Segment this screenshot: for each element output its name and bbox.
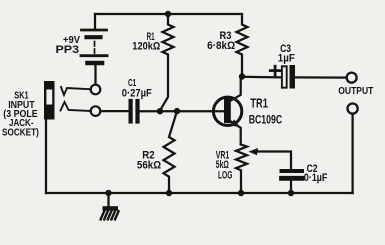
- wire bottom rail: [46, 192, 353, 194]
- node R1 base junction: [157, 108, 163, 114]
- ground symbol stem: [107, 193, 109, 207]
- svg-text:56kΩ: 56kΩ: [137, 159, 161, 171]
- switch contact lower arm: [61, 102, 91, 111]
- wire battery negative lead: [94, 65, 96, 84]
- capacitor C1 plate left: [129, 101, 133, 122]
- wire C2 to rail: [290, 181, 292, 193]
- node VR1 ground junction: [238, 190, 244, 196]
- resistor R3: [237, 14, 248, 77]
- switch contact lower circle: [91, 106, 101, 116]
- potentiometer VR1 wiper arrow head: [249, 148, 259, 155]
- transistor TR1 emitter arrow: [230, 119, 240, 127]
- wire C1 to base: [140, 110, 224, 112]
- svg-text:TR1: TR1: [250, 95, 268, 110]
- wire battery positive lead: [94, 14, 96, 29]
- svg-text:OUTPUT: OUTPUT: [338, 85, 373, 97]
- wire input circle to C1: [101, 110, 129, 112]
- switch contact upper arm: [61, 87, 91, 95]
- battery BY1 long plate top: [82, 29, 107, 32]
- capacitor C2 plate top: [282, 169, 303, 173]
- terminal output upper: [347, 73, 357, 83]
- label C3 polarity plus: [270, 69, 280, 72]
- node R2 ground junction: [166, 190, 172, 196]
- battery BY1 short plate bottom: [88, 61, 103, 66]
- wire collector: [231, 77, 241, 101]
- svg-text:0·1µF: 0·1µF: [304, 172, 328, 184]
- terminal output lower: [348, 104, 358, 114]
- svg-text:SOCKET): SOCKET): [2, 126, 39, 138]
- wire jack sleeve to ground rail: [45, 120, 47, 194]
- potentiometer VR1: [236, 145, 247, 194]
- capacitor C3 plate positive hollow: [282, 66, 287, 87]
- wire collector to C3: [242, 76, 282, 79]
- transistor TR1 emitter: [231, 122, 241, 145]
- wire top rail: [95, 13, 242, 15]
- battery BY1 long plate lower: [81, 54, 107, 57]
- transistor TR1 base bar: [224, 97, 231, 123]
- svg-text:6·8kΩ: 6·8kΩ: [207, 40, 235, 52]
- node top rail R1 junction: [165, 11, 171, 17]
- ground symbol bar: [103, 206, 119, 210]
- svg-text:0·27µF: 0·27µF: [122, 87, 152, 99]
- node ground symbol junction: [105, 190, 111, 196]
- transistor TR1 circle: [213, 97, 241, 125]
- node C2 ground junction: [288, 190, 294, 196]
- capacitor C2 plate bottom: [282, 176, 303, 181]
- svg-text:BC109C: BC109C: [249, 113, 283, 127]
- wire output lower to rail: [351, 114, 353, 193]
- jack socket SK1 body: [44, 81, 55, 120]
- capacitor C1 plate right: [135, 101, 139, 122]
- node R2 base junction: [174, 108, 180, 114]
- svg-text:1µF: 1µF: [278, 53, 295, 65]
- battery BY1 dashed cell link: [94, 42, 96, 54]
- node collector junction: [239, 73, 245, 79]
- wire C3 to output terminal: [295, 76, 347, 78]
- resistor R2: [164, 111, 178, 193]
- resistor R1: [160, 14, 174, 111]
- svg-text:LOG: LOG: [218, 169, 232, 181]
- svg-text:PP3: PP3: [56, 44, 80, 56]
- switch contact upper circle: [91, 85, 101, 95]
- wire wiper to C2: [257, 152, 292, 169]
- capacitor C3 plate negative solid: [290, 65, 296, 89]
- jack socket SK1 window: [46, 90, 52, 105]
- battery BY1 short plate upper: [87, 35, 101, 39]
- ground symbol hatching: [101, 211, 119, 220]
- svg-text:120kΩ: 120kΩ: [132, 41, 160, 53]
